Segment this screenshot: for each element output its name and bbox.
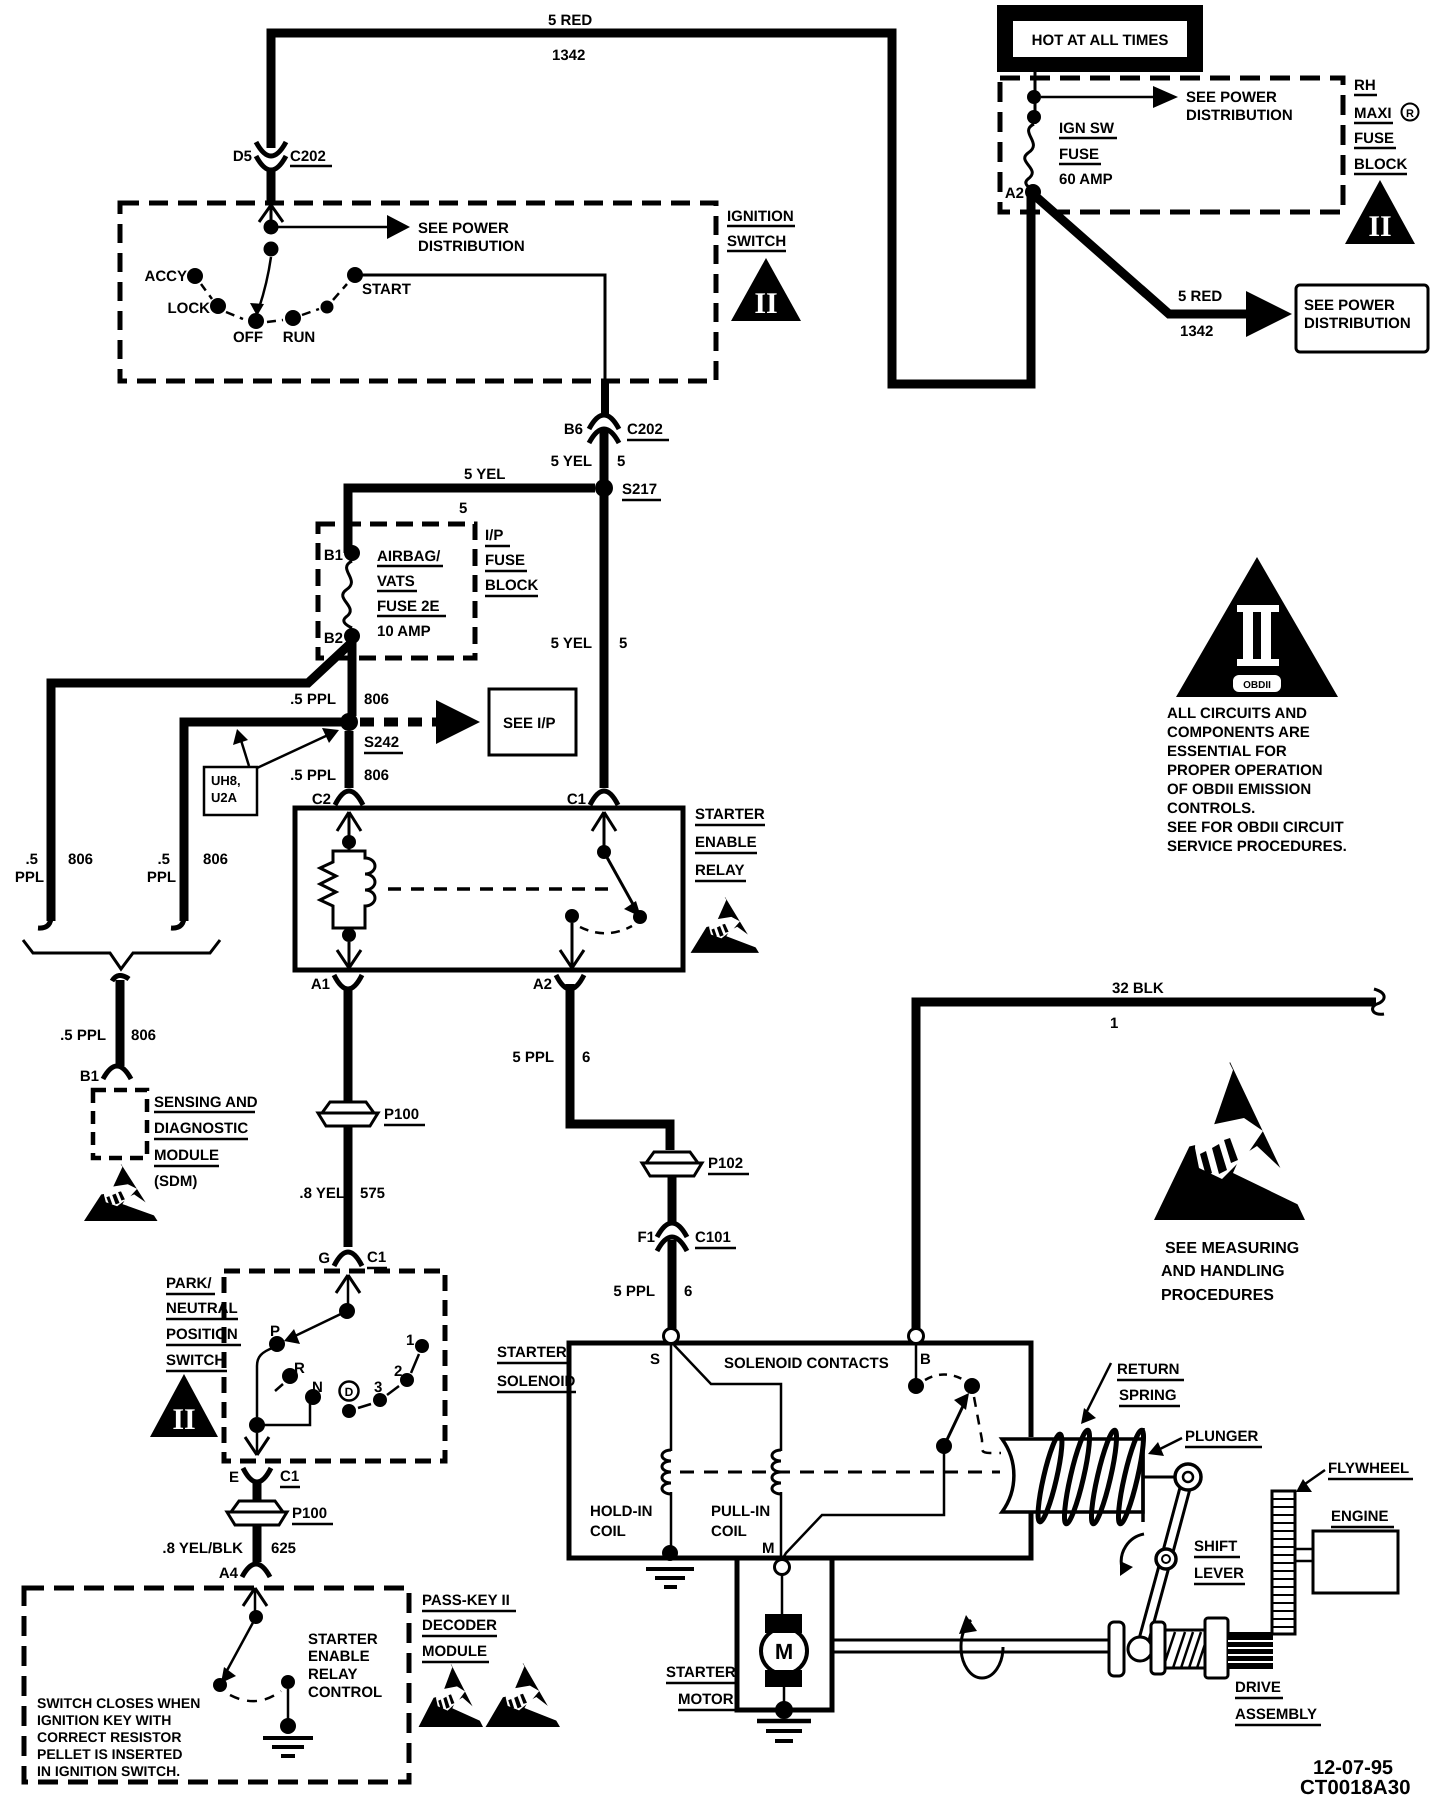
connector pin B1 SDM — [103, 1066, 131, 1079]
connector P100 (relay leg) — [318, 1102, 378, 1126]
starter solenoid box — [569, 1343, 1031, 1558]
wire contact to A2 with exit arrow — [560, 923, 584, 968]
node ignition wiper pivot — [264, 242, 279, 257]
connector pin C2 relay — [335, 791, 363, 805]
svg-text:SEE POWER: SEE POWER — [1186, 89, 1277, 106]
svg-text:BLOCK: BLOCK — [1354, 156, 1407, 173]
wire battery feed inside fuse block — [1034, 72, 1037, 124]
connector C202 pin B6 — [589, 415, 619, 443]
label SEE POWER DISTRIBUTION (fuse block) — [1186, 89, 1293, 124]
svg-text:OF OBDII EMISSION: OF OBDII EMISSION — [1167, 781, 1311, 798]
connector C101 pin F1 — [657, 1223, 687, 1251]
label S217 — [622, 481, 661, 500]
label FLYWHEEL with arrow — [1296, 1460, 1413, 1492]
dashed plunger actuation line — [680, 1471, 1000, 1474]
svg-text:SEE FOR OBDII CIRCUIT: SEE FOR OBDII CIRCUIT — [1167, 819, 1344, 836]
node ACCY — [187, 268, 203, 284]
svg-text:B2: B2 — [324, 630, 343, 647]
svg-text:1342: 1342 — [552, 47, 585, 64]
svg-text:PARK/: PARK/ — [166, 1275, 212, 1292]
drive collar left — [1151, 1622, 1165, 1674]
wire C1 entry arrow — [592, 812, 616, 852]
svg-text:SEE MEASURING: SEE MEASURING — [1165, 1240, 1299, 1257]
svg-text:5 RED: 5 RED — [1178, 288, 1222, 305]
svg-text:AIRBAG/: AIRBAG/ — [377, 548, 441, 565]
rotation arrow on shaft — [959, 1615, 1003, 1678]
label SENSING AND DIAGNOSTIC MODULE (SDM) — [154, 1094, 258, 1190]
svg-text:P: P — [270, 1323, 280, 1340]
svg-text:5 PPL: 5 PPL — [512, 1049, 554, 1066]
svg-text:B: B — [920, 1351, 931, 1368]
svg-text:.8 YEL/BLK: .8 YEL/BLK — [162, 1540, 243, 1557]
node fuse top — [1027, 110, 1041, 124]
label SEE MEASURING AND HANDLING PROCEDURES — [1161, 1240, 1299, 1304]
label PULL-IN COIL — [711, 1503, 770, 1540]
svg-text:B1: B1 — [80, 1068, 99, 1085]
svg-text:C1: C1 — [367, 1249, 386, 1266]
svg-text:CT0018A30: CT0018A30 — [1300, 1776, 1411, 1799]
label STARTER ENABLE RELAY — [695, 806, 765, 881]
label PLUNGER with arrow — [1148, 1428, 1262, 1456]
pass-key II decoder module box (dashed) — [24, 1588, 409, 1782]
svg-text:D5: D5 — [233, 148, 252, 165]
drive pinion gear — [1228, 1632, 1273, 1669]
label DRIVE ASSEMBLY — [1235, 1679, 1321, 1725]
dashed contact arc solenoid — [925, 1375, 964, 1381]
svg-text:S: S — [650, 1351, 660, 1368]
arrow UH8 to S242 — [257, 728, 339, 768]
svg-text:POSITION: POSITION — [166, 1326, 238, 1343]
svg-text:DIAGNOSTIC: DIAGNOSTIC — [154, 1120, 248, 1137]
wire see power distribution arrow (fuse block) — [1041, 86, 1178, 108]
starter enable relay box — [295, 808, 683, 970]
svg-text:5: 5 — [619, 635, 627, 652]
svg-text:G: G — [318, 1250, 330, 1267]
node position R — [282, 1368, 298, 1384]
svg-text:ENABLE: ENABLE — [308, 1648, 370, 1665]
svg-text:5: 5 — [459, 500, 467, 517]
wire dashed detent arc LOCK-OFF — [226, 312, 243, 319]
label PARK/NEUTRAL POSITION SWITCH — [166, 1275, 241, 1371]
label STARTER ENABLE RELAY CONTROL — [308, 1631, 382, 1701]
rotation arrow at shift lever — [1120, 1534, 1144, 1576]
node position 2 — [400, 1373, 414, 1387]
svg-text:806: 806 — [203, 851, 228, 868]
svg-text:PPL: PPL — [15, 869, 44, 886]
dash D-3 — [358, 1404, 371, 1408]
label OBDII note — [1167, 705, 1347, 855]
dash R tail — [275, 1384, 283, 1391]
svg-text:RH: RH — [1354, 77, 1376, 94]
label C202 — [290, 148, 332, 166]
svg-text:RELAY: RELAY — [308, 1666, 357, 1683]
wire motor to ground — [783, 1687, 786, 1705]
wire output to N contact — [257, 1401, 310, 1425]
svg-text:SHIFT: SHIFT — [1194, 1538, 1237, 1555]
PNP wiper arm to P — [284, 1311, 347, 1344]
connector P102 — [642, 1152, 702, 1176]
node position 3 — [373, 1393, 387, 1407]
flywheel ring gear — [1272, 1491, 1295, 1634]
node relay coil top — [342, 835, 356, 849]
label P100 — [384, 1106, 425, 1125]
connector pin G C1 (PNP switch) — [334, 1252, 362, 1266]
symbol ESD triangle (relay) — [691, 896, 759, 953]
wire dashed S242 to SEE I/P — [360, 718, 442, 727]
label SHIFT LEVER — [1194, 1538, 1245, 1584]
node solenoid left contact — [908, 1378, 924, 1394]
svg-text:C1: C1 — [280, 1468, 299, 1485]
svg-text:C1: C1 — [567, 791, 586, 808]
node position D contact — [342, 1404, 356, 1418]
svg-text:F1: F1 — [637, 1229, 655, 1246]
svg-text:U2A: U2A — [211, 790, 238, 805]
svg-text:SWITCH CLOSES WHEN: SWITCH CLOSES WHEN — [37, 1695, 200, 1711]
svg-text:SWITCH: SWITCH — [727, 233, 786, 250]
node splice S217 — [595, 479, 613, 497]
shift lever — [1142, 1464, 1201, 1647]
node pin B2 I/P fuse — [344, 628, 360, 644]
node battery feed junction — [264, 220, 279, 235]
svg-text:II: II — [172, 1403, 195, 1436]
svg-text:MAXI: MAXI — [1354, 105, 1392, 122]
svg-text:STARTER: STARTER — [666, 1664, 736, 1681]
return spring coils — [1034, 1429, 1149, 1525]
fuse IGN SW 60A element — [1025, 124, 1034, 190]
wire E to P100 — [253, 1481, 262, 1500]
svg-text:N: N — [312, 1379, 323, 1396]
svg-text:6: 6 — [582, 1049, 590, 1066]
label switch closes note — [37, 1695, 200, 1779]
link plunger to shift lever — [1143, 1476, 1176, 1479]
svg-text:RELAY: RELAY — [695, 862, 744, 879]
connector pin A4 decoder module — [242, 1564, 270, 1577]
svg-text:HOT AT ALL TIMES: HOT AT ALL TIMES — [1032, 32, 1169, 49]
connector pin A1 relay — [334, 975, 362, 989]
svg-text:BLOCK: BLOCK — [485, 577, 538, 594]
symbol triangle II (PNP switch) — [150, 1374, 218, 1437]
svg-text:RETURN: RETURN — [1117, 1361, 1180, 1378]
node fuse feed junction — [1027, 90, 1041, 104]
svg-text:A1: A1 — [311, 976, 330, 993]
svg-text:.5 PPL: .5 PPL — [290, 767, 336, 784]
relay switch arm — [604, 852, 641, 917]
svg-text:S217: S217 — [622, 481, 657, 498]
svg-text:CORRECT RESISTOR: CORRECT RESISTOR — [37, 1729, 181, 1745]
wire dashed detent arc RUN-mid — [302, 309, 319, 315]
wire B2 to S242 — [348, 640, 357, 716]
svg-text:60 AMP: 60 AMP — [1059, 171, 1113, 188]
svg-text:.5 PPL: .5 PPL — [60, 1027, 106, 1044]
node PNP common — [339, 1303, 355, 1319]
fuse AIRBAG/VATS 2E element — [343, 561, 352, 628]
svg-text:S242: S242 — [364, 734, 399, 751]
svg-text:E: E — [229, 1469, 239, 1486]
svg-text:PROPER OPERATION: PROPER OPERATION — [1167, 762, 1323, 779]
node decoder switch right contact — [281, 1675, 295, 1689]
wire A1 to P100 (.8 YEL 575) — [344, 987, 353, 1101]
starter motor armature — [761, 1614, 807, 1687]
label AIRBAG/VATS FUSE 2E 10 AMP — [377, 548, 446, 640]
node decoder switch top — [249, 1610, 263, 1624]
svg-text:PASS-KEY II: PASS-KEY II — [422, 1592, 510, 1609]
svg-text:1342: 1342 — [1180, 323, 1213, 340]
wire 5 RED main feed (top run to RH fuse block) — [271, 33, 1031, 384]
svg-text:DECODER: DECODER — [422, 1617, 497, 1634]
svg-text:5: 5 — [617, 453, 625, 470]
drive collar right — [1205, 1618, 1228, 1678]
pull-in coil — [674, 1345, 781, 1559]
symbol ESD triangle (SDM) — [84, 1163, 158, 1221]
svg-text:I/P: I/P — [485, 527, 503, 544]
wire ignition wiper arm — [250, 257, 271, 316]
I/P fuse block box (dashed) — [318, 524, 475, 658]
terminal M (open circle) — [775, 1560, 790, 1575]
label RETURN SPRING with arrow — [1081, 1361, 1184, 1424]
svg-text:OFF: OFF — [233, 329, 263, 346]
wire moving contact to M terminal — [783, 1452, 944, 1558]
svg-text:C202: C202 — [627, 421, 663, 438]
svg-text:.5: .5 — [25, 851, 38, 868]
decoder switch arm — [221, 1617, 256, 1683]
connector pin E C1 — [243, 1468, 271, 1482]
shaft collar disc — [1109, 1622, 1124, 1676]
label S242 — [364, 734, 403, 753]
svg-text:STARTER: STARTER — [497, 1344, 567, 1361]
svg-text:2: 2 — [394, 1363, 402, 1380]
svg-text:IN IGNITION SWITCH.: IN IGNITION SWITCH. — [37, 1763, 180, 1779]
connector pin A2 relay — [556, 975, 584, 989]
dashed contact arc decoder — [230, 1691, 281, 1701]
wire end hook (second .5 PPL) — [171, 914, 184, 928]
svg-text:FUSE: FUSE — [485, 552, 525, 569]
label C1 (E) — [280, 1468, 300, 1487]
svg-text:806: 806 — [364, 767, 389, 784]
SEE POWER DISTRIBUTION destination box — [1296, 285, 1428, 352]
relay coil (resistor + winding in parallel) — [320, 842, 375, 935]
label PASS-KEY II DECODER MODULE — [422, 1592, 516, 1662]
svg-text:6: 6 — [684, 1283, 692, 1300]
wire 5 YEL S217 down to relay C1 — [600, 493, 609, 788]
symbol OBDII triangle — [1176, 557, 1338, 697]
node position 1 — [415, 1339, 429, 1353]
svg-text:SPRING: SPRING — [1119, 1387, 1177, 1404]
svg-text:5 YEL: 5 YEL — [551, 635, 592, 652]
label P100 (second) — [292, 1505, 333, 1524]
svg-text:OBDII: OBDII — [1243, 680, 1271, 691]
svg-text:HOLD-IN: HOLD-IN — [590, 1503, 653, 1520]
label I/P FUSE BLOCK — [485, 527, 538, 596]
wire see power distribution arrow — [271, 215, 410, 239]
label IGN SW FUSE 60 AMP — [1059, 120, 1117, 188]
wire P100 to A4 (.8 YEL/BLK 625) — [253, 1525, 262, 1562]
node LOCK — [210, 298, 226, 314]
svg-text:MODULE: MODULE — [154, 1147, 219, 1164]
node pin A2 fuse block — [1025, 184, 1041, 200]
ground decoder module — [263, 1718, 313, 1756]
svg-text:DISTRIBUTION: DISTRIBUTION — [418, 238, 525, 255]
shift fork ball — [1128, 1637, 1152, 1661]
wire merged .5 PPL 806 to SDM — [112, 975, 129, 1066]
svg-text:32 BLK: 32 BLK — [1112, 980, 1164, 997]
ground hold-in coil — [646, 1545, 694, 1587]
svg-text:P102: P102 — [708, 1155, 743, 1172]
svg-text:AND HANDLING: AND HANDLING — [1161, 1263, 1285, 1280]
wire A2 relay to P102 (5 PPL 6) — [570, 984, 670, 1150]
dashed link contact to plunger — [974, 1397, 1001, 1453]
label SEE POWER DISTRIBUTION (ignition) — [418, 220, 525, 255]
svg-text:P100: P100 — [384, 1106, 419, 1123]
node OFF — [248, 313, 264, 329]
svg-text:LOCK: LOCK — [168, 300, 211, 317]
wire ignition to B6 (thick stub) — [601, 379, 609, 414]
wire S242 to relay C2 — [345, 731, 354, 788]
label C1 (G) — [367, 1249, 387, 1268]
wire end hook (left .5 PPL) — [38, 914, 51, 928]
svg-text:B1: B1 — [324, 547, 343, 564]
svg-text:MODULE: MODULE — [422, 1643, 487, 1660]
node relay switch common — [597, 845, 611, 859]
wire 2 to 1 — [411, 1354, 419, 1373]
label .5 PPL 806 (second left wire) — [147, 851, 228, 886]
label P102 — [708, 1155, 749, 1174]
svg-text:3: 3 — [374, 1379, 382, 1396]
svg-text:5 YEL: 5 YEL — [464, 466, 505, 483]
svg-text:806: 806 — [68, 851, 93, 868]
svg-text:FUSE: FUSE — [1059, 146, 1099, 163]
svg-text:SEE I/P: SEE I/P — [503, 715, 556, 732]
wire P102 to C101 — [668, 1176, 677, 1222]
wire dashed detent arc ACCY-LOCK — [201, 284, 212, 299]
svg-text:STARTER: STARTER — [308, 1631, 378, 1648]
svg-text:575: 575 — [360, 1185, 385, 1202]
wire 32 BLK from B terminal — [916, 989, 1384, 1328]
arrow UH8 to B2 wire — [233, 729, 249, 766]
UH8 U2A callout box — [204, 767, 257, 815]
terminal B (open circle) — [909, 1329, 924, 1344]
wire dashed detent arc mid-START — [333, 284, 347, 300]
svg-text:C202: C202 — [290, 148, 326, 165]
wire B to left contact — [915, 1344, 918, 1379]
svg-text:.5 PPL: .5 PPL — [290, 691, 336, 708]
svg-text:ALL CIRCUITS AND: ALL CIRCUITS AND — [1167, 705, 1307, 722]
brace merge of PPL wires — [23, 940, 220, 969]
HOT AT ALL TIMES banner — [997, 5, 1203, 72]
wire B2 branch left (.5 PPL 806) — [51, 643, 351, 921]
svg-text:806: 806 — [364, 691, 389, 708]
node position P — [269, 1336, 285, 1352]
plunger body — [1002, 1428, 1143, 1522]
hold-in coil — [662, 1344, 671, 1548]
svg-text:R: R — [1406, 108, 1414, 120]
node PNP output junction — [249, 1417, 265, 1433]
label STARTER MOTOR — [666, 1664, 736, 1710]
dashed actuation line relay — [388, 887, 612, 891]
wire START to B6 C202 — [355, 275, 605, 381]
motor output shaft — [832, 1640, 1109, 1652]
svg-text:B6: B6 — [564, 421, 583, 438]
svg-text:R: R — [294, 1360, 305, 1377]
svg-text:FLYWHEEL: FLYWHEEL — [1328, 1460, 1409, 1477]
label C202 (B6) — [627, 421, 669, 440]
svg-text:M: M — [775, 1639, 793, 1664]
svg-text:PULL-IN: PULL-IN — [711, 1503, 770, 1520]
svg-text:IGN SW: IGN SW — [1059, 120, 1115, 137]
wire 5 YEL branch to I/P fuse block — [348, 488, 595, 553]
svg-text:5 RED: 5 RED — [548, 12, 592, 29]
svg-text:D: D — [345, 1385, 354, 1399]
svg-text:5 PPL: 5 PPL — [613, 1283, 655, 1300]
label HOLD-IN COIL — [590, 1503, 653, 1540]
svg-text:10 AMP: 10 AMP — [377, 623, 431, 640]
svg-text:ENABLE: ENABLE — [695, 834, 757, 851]
symbol ESD triangle (decoder 2) — [486, 1662, 560, 1727]
svg-text:SEE POWER: SEE POWER — [1304, 297, 1395, 314]
svg-text:806: 806 — [131, 1027, 156, 1044]
label STARTER SOLENOID — [497, 1344, 576, 1392]
label .5 PPL 806 (far left wire) — [15, 851, 93, 886]
svg-text:PPL: PPL — [147, 869, 176, 886]
svg-text:P100: P100 — [292, 1505, 327, 1522]
symbol position D (circled) — [340, 1382, 359, 1401]
svg-text:FUSE 2E: FUSE 2E — [377, 598, 440, 615]
dash 3-2 — [387, 1386, 399, 1395]
svg-text:FUSE: FUSE — [1354, 130, 1394, 147]
wire P to output — [257, 1347, 275, 1417]
symbol triangle II (RH fuse block) — [1345, 180, 1415, 244]
RH maxi fuse block box (dashed) — [1000, 78, 1343, 212]
wire M to motor — [781, 1575, 784, 1614]
svg-text:DISTRIBUTION: DISTRIBUTION — [1186, 107, 1293, 124]
svg-text:II: II — [754, 287, 777, 320]
svg-text:CONTROL: CONTROL — [308, 1684, 382, 1701]
node RUN — [285, 310, 301, 326]
ignition switch box (dashed) — [120, 203, 716, 381]
svg-text:NEUTRAL: NEUTRAL — [166, 1300, 238, 1317]
svg-text:START: START — [362, 281, 411, 298]
svg-text:625: 625 — [271, 1540, 296, 1557]
svg-text:COIL: COIL — [590, 1523, 626, 1540]
wire S242 branch left (.5 PPL 806 second) — [184, 722, 341, 921]
wire C2 entry arrow — [337, 812, 361, 842]
label C101 — [695, 1229, 736, 1248]
svg-text:MOTOR: MOTOR — [678, 1691, 734, 1708]
connector C202 pin D5 — [256, 142, 286, 170]
svg-text:STARTER: STARTER — [695, 806, 765, 823]
label ENGINE — [1331, 1508, 1394, 1527]
svg-text:IGNITION: IGNITION — [727, 208, 794, 225]
SEE I/P destination box — [489, 689, 576, 755]
node solenoid right contact — [964, 1378, 980, 1394]
wire P100 to G C1 — [344, 1126, 353, 1247]
svg-text:ACCY: ACCY — [144, 268, 187, 285]
wire C202 to ignition switch — [267, 168, 276, 204]
arrow to SEE I/P — [436, 700, 480, 744]
svg-text:COIL: COIL — [711, 1523, 747, 1540]
wire 5 YEL B6 to S217 — [600, 431, 609, 492]
svg-text:PELLET IS INSERTED: PELLET IS INSERTED — [37, 1746, 182, 1762]
svg-text:5 YEL: 5 YEL — [551, 453, 592, 470]
svg-text:UH8,: UH8, — [211, 773, 241, 788]
wire G entry arrow — [336, 1275, 360, 1311]
node relay switch open contact — [633, 910, 647, 924]
svg-text:ENGINE: ENGINE — [1331, 1508, 1389, 1525]
ground starter motor — [757, 1701, 811, 1741]
svg-text:(SDM): (SDM) — [154, 1173, 197, 1190]
label IGNITION SWITCH — [727, 208, 795, 251]
svg-text:1: 1 — [1110, 1015, 1118, 1032]
svg-text:SEE POWER: SEE POWER — [418, 220, 509, 237]
